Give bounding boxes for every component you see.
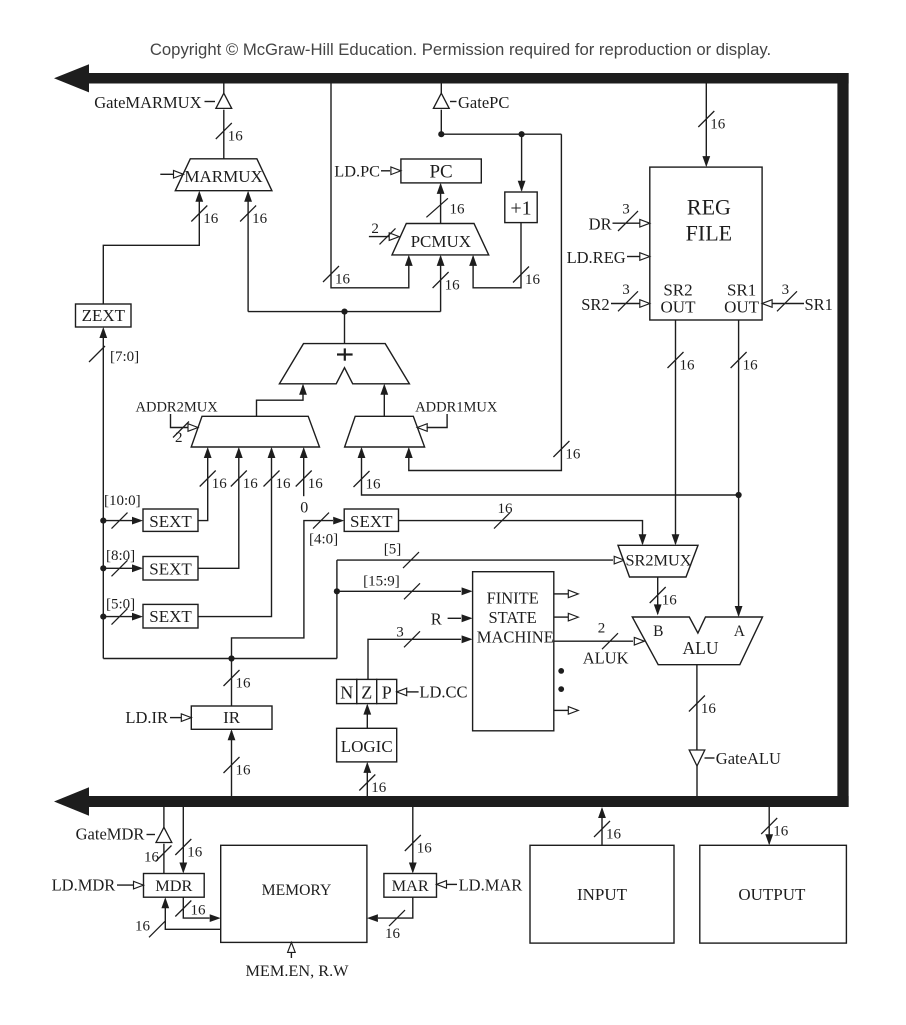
svg-text:Z: Z <box>361 683 372 703</box>
svg-text:MAR: MAR <box>392 876 429 895</box>
register PC <box>401 159 481 183</box>
control ALUK with 2 <box>554 621 645 668</box>
svg-text:LD.MDR: LD.MDR <box>52 876 116 895</box>
svg-text:2: 2 <box>598 621 606 637</box>
svg-text:[8:0]: [8:0] <box>106 548 135 564</box>
label GateMARMUX <box>94 93 215 112</box>
mux PCMUX <box>392 224 489 255</box>
select input of MARMUX <box>160 171 183 179</box>
FSM ellipsis dots <box>558 668 564 692</box>
svg-text:OUTPUT: OUTPUT <box>738 885 806 904</box>
gate GateALU (tri-state buffer) <box>689 750 705 766</box>
svg-text:PC: PC <box>429 162 452 183</box>
wire bus to GatePC gate <box>440 84 442 94</box>
control SR1 with 3 <box>762 282 833 314</box>
block ZEXT <box>76 304 132 327</box>
svg-text:2: 2 <box>371 221 379 237</box>
svg-text:OUT: OUT <box>661 298 697 317</box>
svg-text:16: 16 <box>144 850 160 866</box>
wire GatePC to PC-output node <box>440 110 442 135</box>
select input of ADDR1MUX <box>417 414 447 431</box>
svg-text:16: 16 <box>203 211 219 227</box>
svg-text:MARMUX: MARMUX <box>184 167 262 186</box>
svg-text:LD.PC: LD.PC <box>334 161 380 180</box>
svg-text:3: 3 <box>782 282 790 298</box>
svg-text:LD.REG: LD.REG <box>567 248 626 267</box>
svg-text:ALU: ALU <box>683 638 719 658</box>
wire MAR to MEMORY with 16 <box>367 897 413 942</box>
wire constant 0 to ADDR2MUX input 4 with 16 <box>296 447 324 517</box>
control SR2 with 3 <box>581 282 650 314</box>
node IR[15:9] tap <box>334 588 340 594</box>
svg-text:GateALU: GateALU <box>716 749 781 768</box>
wire adder output to MARMUX right input with 16 <box>240 191 268 312</box>
svg-text:16: 16 <box>252 211 268 227</box>
block SEXT (IR[5:0]) <box>143 604 198 628</box>
svg-text:16: 16 <box>371 780 387 796</box>
wire bus to LOGIC with 16 <box>359 762 387 796</box>
svg-text:REG: REG <box>687 195 731 220</box>
wire PCMUX middle input from adder with 16 <box>433 255 461 312</box>
svg-text:16: 16 <box>243 476 258 492</box>
register N flag <box>337 679 357 703</box>
wire MEMORY to MDR with 16 <box>135 897 221 937</box>
svg-text:16: 16 <box>743 358 759 374</box>
wire SR2 OUT to SR2MUX with 16 <box>668 320 696 545</box>
node IR tap for SEXT[8:0] <box>100 565 106 571</box>
svg-text:ALUK: ALUK <box>583 649 629 668</box>
wire GateALU to bus <box>696 766 698 796</box>
wire SR1 OUT to ADDR1MUX left input with 16 <box>354 447 739 495</box>
wire +1 output to PCMUX right input with 16 <box>469 223 540 288</box>
wire SEXT[4:0] to SR2MUX with 16 <box>399 501 647 545</box>
wire NZP to FSM with 3 <box>368 625 473 680</box>
node SR1OUT to ADDR1MUX branch <box>736 492 742 498</box>
control R input to FSM <box>431 610 473 629</box>
svg-text:N: N <box>340 683 353 703</box>
mux ADDR1MUX <box>345 416 425 447</box>
svg-text:3: 3 <box>622 202 630 218</box>
wire bus to MAR with 16 <box>405 807 433 874</box>
wire ALU output with 16 <box>689 665 717 750</box>
svg-text:16: 16 <box>228 129 244 145</box>
svg-text:[5:0]: [5:0] <box>106 597 135 613</box>
block +1 incrementer <box>505 192 537 223</box>
wire PC value down to ADDR1MUX right input with 16 <box>405 134 581 470</box>
svg-text:ADDR1MUX: ADDR1MUX <box>415 400 498 416</box>
wire INPUT to bus with 16 <box>594 807 622 845</box>
wire GateMARMUX to MARMUX with 16 <box>216 110 244 159</box>
svg-text:SR2MUX: SR2MUX <box>625 551 691 570</box>
block FINITE STATE MACHINE <box>473 572 554 731</box>
svg-text:LD.MAR: LD.MAR <box>459 876 523 895</box>
svg-text:[4:0]: [4:0] <box>309 532 338 548</box>
svg-text:16: 16 <box>710 117 726 133</box>
svg-text:16: 16 <box>236 676 252 692</box>
mux ADDR2MUX <box>191 416 319 447</box>
node IR tap for SEXT[10:0] <box>100 518 106 524</box>
wire ZEXT output to MARMUX left input with 16 <box>103 191 219 304</box>
svg-text:16: 16 <box>385 926 401 942</box>
svg-text:ADDR2MUX: ADDR2MUX <box>136 400 219 416</box>
svg-text:IR: IR <box>223 708 241 727</box>
svg-text:16: 16 <box>191 903 207 919</box>
node IR tap for SEXT[5:0] <box>100 614 106 620</box>
mux MARMUX <box>175 159 272 191</box>
svg-text:16: 16 <box>212 476 228 492</box>
FSM control output 2 <box>554 613 579 621</box>
block SEXT (IR[10:0]) <box>143 509 198 531</box>
alu ALU <box>632 617 762 665</box>
control LD.IR <box>125 708 191 727</box>
control LD.MAR <box>437 876 523 895</box>
wire bus to GateMDR gate <box>163 807 165 828</box>
label [4:0] <box>309 532 338 548</box>
wire bus to OUTPUT with 16 <box>761 807 789 845</box>
svg-text:16: 16 <box>525 272 541 288</box>
svg-text:ZEXT: ZEXT <box>82 306 126 325</box>
block SEXT (IR[8:0]) <box>143 557 198 581</box>
control LD.PC <box>334 161 401 180</box>
svg-text:INPUT: INPUT <box>577 885 628 904</box>
svg-text:16: 16 <box>417 841 433 857</box>
register IR <box>191 706 272 729</box>
svg-text:B: B <box>653 623 663 640</box>
svg-text:LD.CC: LD.CC <box>419 683 467 702</box>
svg-text:0: 0 <box>300 500 308 517</box>
svg-text:[15:9]: [15:9] <box>363 574 400 590</box>
block OUTPUT <box>700 845 847 943</box>
svg-text:MEM.EN, R.W: MEM.EN, R.W <box>245 961 349 980</box>
gate GateMARMUX (tri-state buffer) <box>216 93 232 108</box>
svg-text:3: 3 <box>622 282 630 298</box>
svg-text:MACHINE: MACHINE <box>477 628 554 647</box>
copyright notice <box>150 40 771 59</box>
wire GateMDR to MDR with 16 <box>144 844 172 874</box>
svg-text:16: 16 <box>366 477 382 493</box>
block LOGIC <box>337 728 397 762</box>
svg-text:STATE: STATE <box>489 608 537 627</box>
svg-text:16: 16 <box>450 202 466 218</box>
svg-text:2: 2 <box>175 430 183 446</box>
svg-text:GateMARMUX: GateMARMUX <box>94 93 201 112</box>
label GateALU <box>705 749 781 768</box>
block INPUT <box>530 845 674 943</box>
bus: right vertical bus segment <box>837 73 848 807</box>
wire bus to REG FILE with 16 <box>698 84 726 168</box>
block SEXT (IR[4:0]) <box>344 509 398 531</box>
wire into SEXT[10:0] <box>103 513 143 529</box>
wire IR[7:0] into ZEXT <box>89 327 139 659</box>
FSM control output 1 <box>554 590 579 598</box>
adder (+) <box>279 344 409 384</box>
select input of ADDR2MUX with 2 <box>171 414 199 446</box>
svg-text:[10:0]: [10:0] <box>104 493 141 509</box>
node at PC output <box>438 131 444 137</box>
svg-text:FILE: FILE <box>686 221 732 246</box>
svg-text:MEMORY: MEMORY <box>262 882 332 899</box>
wire PC output horizontal run <box>441 133 561 135</box>
wire node down into adder <box>344 312 346 344</box>
control MEM.EN, R.W <box>245 942 349 979</box>
wire ADDR2MUX output into adder <box>257 384 307 417</box>
svg-text:GateMDR: GateMDR <box>76 825 145 844</box>
svg-text:MDR: MDR <box>155 876 192 895</box>
wire ADDR1MUX output into adder <box>380 384 388 417</box>
svg-text:+1: +1 <box>510 198 531 220</box>
svg-text:3: 3 <box>396 625 404 641</box>
wire SR2MUX output to ALU B with 16 <box>650 577 678 615</box>
label GatePC <box>450 93 509 112</box>
svg-text:16: 16 <box>606 827 622 843</box>
block MEMORY <box>221 845 367 942</box>
mux SR2MUX <box>618 545 698 577</box>
svg-text:[7:0]: [7:0] <box>110 349 139 365</box>
svg-text:SEXT: SEXT <box>149 607 192 626</box>
wire IR output with 16 <box>224 659 252 707</box>
svg-text:[5]: [5] <box>384 542 402 558</box>
wire adder output to y311 run <box>248 311 441 313</box>
svg-text:16: 16 <box>773 824 789 840</box>
svg-text:16: 16 <box>662 593 678 609</box>
control DR with 3 <box>589 202 650 234</box>
wire IR[5] to SR2MUX select <box>337 542 624 569</box>
node at +1 branch <box>519 131 525 137</box>
svg-text:16: 16 <box>135 919 151 935</box>
wire bus to GateMARMUX gate <box>223 84 225 94</box>
label [5:0] <box>106 597 135 613</box>
gate GateMDR (tri-state buffer) <box>156 827 172 842</box>
svg-text:SEXT: SEXT <box>149 512 192 531</box>
svg-text:R: R <box>431 610 442 629</box>
select input of PCMUX with 2 <box>369 221 399 244</box>
control LD.CC <box>397 683 468 702</box>
register MDR <box>144 874 205 898</box>
svg-text:16: 16 <box>498 501 514 517</box>
svg-text:LOGIC: LOGIC <box>341 737 393 756</box>
wire IR[15:9] into FSM <box>337 574 473 600</box>
wire PCMUX output to PC with 16 <box>426 183 465 224</box>
gate GatePC (tri-state buffer) <box>433 93 449 108</box>
control LD.MDR <box>52 876 144 895</box>
wire IR[4:0] tap to SEXT <box>232 513 345 659</box>
svg-text:SEXT: SEXT <box>350 512 393 531</box>
bus: bottom system bus with left arrowhead <box>54 787 849 816</box>
wire SR1 OUT down to ALU A with 16 <box>731 320 759 617</box>
wire MDR to MEMORY with 16 <box>175 897 220 922</box>
svg-text:SEXT: SEXT <box>149 559 192 578</box>
FSM control output 3 <box>554 707 579 715</box>
svg-text:16: 16 <box>701 701 717 717</box>
svg-text:16: 16 <box>187 845 203 861</box>
svg-text:16: 16 <box>308 476 324 492</box>
svg-text:16: 16 <box>565 447 581 463</box>
svg-text:16: 16 <box>680 358 696 374</box>
wire into SEXT[8:0] <box>103 560 143 576</box>
svg-text:16: 16 <box>335 272 351 288</box>
svg-text:SR1: SR1 <box>805 295 833 314</box>
svg-text:PCMUX: PCMUX <box>411 232 471 251</box>
svg-text:DR: DR <box>589 215 612 234</box>
control LD.REG <box>567 248 650 267</box>
label ADDR1MUX <box>415 400 498 416</box>
register Z flag <box>357 679 377 703</box>
svg-text:FINITE: FINITE <box>487 589 539 608</box>
wire bus tap to PCMUX left input with 16 <box>323 84 413 288</box>
svg-text:16: 16 <box>236 763 252 779</box>
node IR output <box>228 655 234 661</box>
wire into SEXT[5:0] <box>103 609 143 625</box>
label [8:0] <box>106 548 135 564</box>
wire branch down into +1 <box>518 134 526 192</box>
wire IR output horizontal run <box>103 658 337 660</box>
wire SEXT[10:0] to ADDR2MUX input 1 with 16 <box>198 447 227 521</box>
block REG FILE <box>650 167 762 320</box>
wire SEXT[8:0] to ADDR2MUX input 2 with 16 <box>198 447 258 568</box>
svg-text:16: 16 <box>276 476 292 492</box>
svg-text:P: P <box>382 683 392 703</box>
label ADDR2MUX <box>136 400 219 416</box>
register P flag <box>377 679 397 703</box>
svg-text:A: A <box>734 623 746 640</box>
wire IR riser to control taps <box>336 560 338 658</box>
wire bus to MDR input with 16 <box>175 807 203 874</box>
bus: top system bus with left arrowhead <box>54 64 849 92</box>
register MAR <box>384 874 437 898</box>
svg-text:Copyright © McGraw-Hill Educat: Copyright © McGraw-Hill Education. Permi… <box>150 40 771 59</box>
svg-text:16: 16 <box>445 278 461 294</box>
label [10:0] <box>104 493 141 509</box>
svg-text:SR2: SR2 <box>581 295 609 314</box>
svg-text:OUT: OUT <box>724 298 760 317</box>
svg-text:LD.IR: LD.IR <box>125 708 168 727</box>
label GateMDR <box>76 825 155 844</box>
wire bus to IR with 16 <box>224 729 252 796</box>
node adder output <box>341 309 347 315</box>
wire SEXT[5:0] to ADDR2MUX input 3 with 16 <box>198 447 291 617</box>
svg-text:GatePC: GatePC <box>458 93 509 112</box>
wire LOGIC to NZP <box>363 704 371 729</box>
